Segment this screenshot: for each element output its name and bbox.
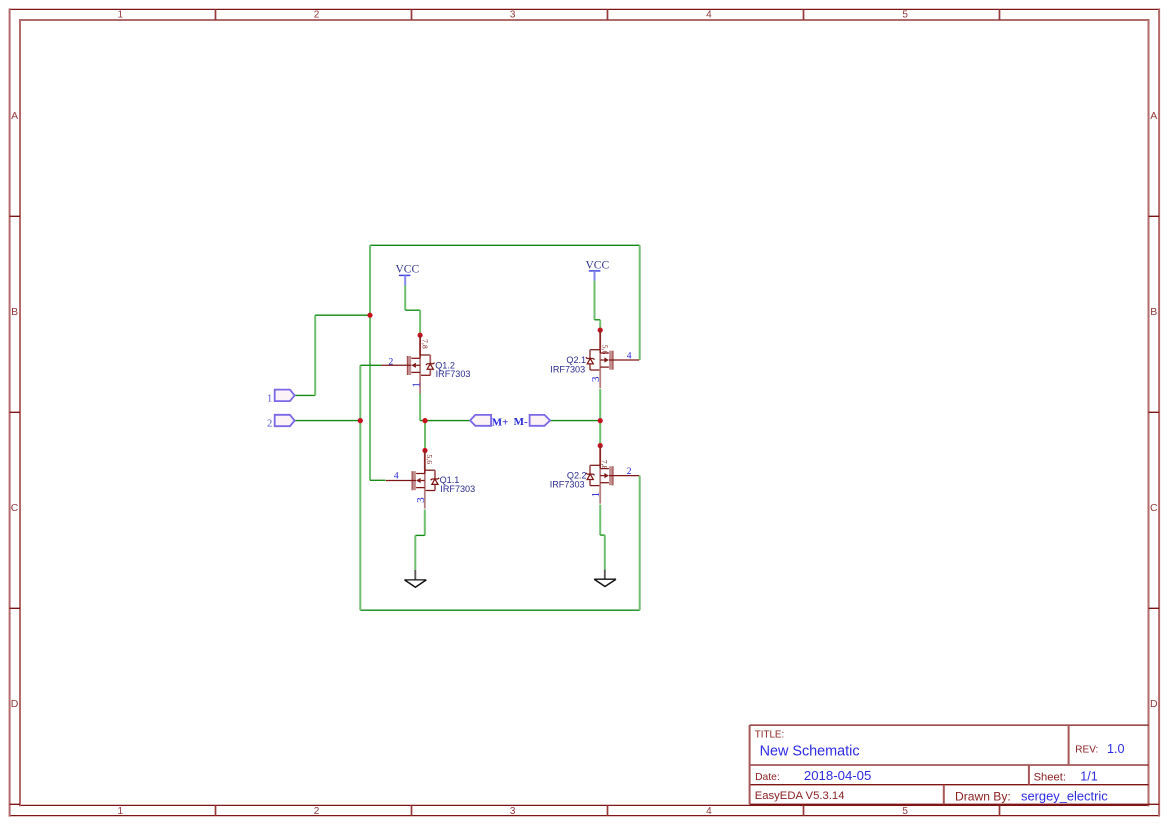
svg-text:1/1: 1/1: [1080, 769, 1098, 783]
svg-text:2: 2: [627, 467, 632, 477]
svg-text:4: 4: [627, 352, 632, 362]
svg-text:VCC: VCC: [585, 259, 609, 271]
svg-text:M-: M-: [514, 416, 528, 428]
svg-text:5: 5: [902, 10, 908, 21]
svg-text:1: 1: [118, 806, 124, 817]
junction at Q1.2 drain: [418, 333, 423, 338]
svg-text:C: C: [11, 502, 19, 514]
net port 1: [275, 390, 295, 402]
wire VCC1 to Q1.2 drain: [419, 310, 421, 335]
ground (right): [594, 570, 616, 587]
wire M+ junction to Q1.1 drain: [424, 421, 426, 451]
svg-text:EasyEDA V5.3.14: EasyEDA V5.3.14: [755, 790, 845, 802]
wire Q1.1 gate stub: [370, 479, 386, 481]
frame row letters left: [11, 110, 19, 710]
svg-text:5,6: 5,6: [425, 454, 434, 464]
svg-text:3: 3: [415, 497, 427, 503]
svg-text:4: 4: [706, 806, 712, 817]
svg-text:Drawn By:: Drawn By:: [955, 789, 1011, 803]
frame column numbers bottom: [118, 806, 909, 817]
wire from port 1: [295, 394, 316, 396]
wire Q2.2 source down: [599, 505, 601, 536]
svg-text:3: 3: [510, 806, 516, 817]
junction at Q2.1 drain: [598, 328, 603, 333]
wire Q1.2 gate stub: [360, 364, 381, 366]
svg-text:5: 5: [902, 806, 908, 817]
wire left vertical from top rail to Q1.1 gate: [369, 245, 371, 480]
frame row letters right: [1150, 110, 1158, 710]
wire VCC2 drop: [594, 280, 596, 320]
net port M-: [530, 415, 551, 426]
title block borders: [750, 725, 1149, 804]
svg-text:5,6: 5,6: [600, 345, 609, 355]
frame column ticks top: [216, 9, 1000, 20]
svg-text:3: 3: [590, 376, 602, 382]
junction at Q2.2 drain: [598, 443, 603, 448]
svg-text:Sheet:: Sheet:: [1034, 771, 1066, 783]
power symbol VCC (left): [395, 264, 419, 286]
svg-text:7,8: 7,8: [420, 339, 429, 349]
svg-text:2: 2: [389, 357, 394, 367]
svg-text:sergey_electric: sergey_electric: [1021, 789, 1108, 804]
svg-text:B: B: [1150, 306, 1157, 318]
wire port 1 to junction: [315, 314, 370, 316]
svg-text:3: 3: [510, 10, 516, 21]
svg-text:2018-04-05: 2018-04-05: [804, 768, 871, 783]
transistor Q1.2 (IRF7303 half, N-MOSFET): [381, 335, 434, 393]
svg-text:1.0: 1.0: [1107, 742, 1125, 756]
wire right vertical from top rail to Q2.1 gate: [639, 245, 641, 360]
wire M- horizontal: [550, 420, 600, 422]
svg-text:1: 1: [590, 492, 602, 498]
frame row ticks right: [1149, 216, 1160, 804]
svg-text:4: 4: [706, 10, 712, 21]
svg-text:1: 1: [118, 10, 124, 21]
wire to left ground: [414, 535, 416, 570]
svg-text:A: A: [1150, 110, 1157, 122]
svg-text:2: 2: [314, 806, 320, 817]
transistor Q2.1 (IRF7303 half, N-MOSFET, mirrored): [586, 330, 639, 388]
svg-text:A: A: [11, 110, 18, 122]
svg-text:1: 1: [410, 382, 422, 388]
net port 2: [275, 415, 295, 426]
svg-text:IRF7303: IRF7303: [550, 365, 585, 375]
wire from port 2 to junction: [295, 420, 361, 422]
svg-text:M+: M+: [492, 416, 509, 428]
frame row ticks left: [10, 216, 20, 804]
svg-text:New Schematic: New Schematic: [760, 744, 860, 760]
svg-text:Date:: Date:: [755, 772, 780, 783]
wire top rail VCC loop (net GATE1): [370, 244, 640, 246]
svg-text:TITLE:: TITLE:: [755, 730, 784, 741]
svg-text:4: 4: [394, 472, 399, 482]
svg-text:VCC: VCC: [395, 264, 419, 276]
svg-text:D: D: [11, 698, 19, 710]
transistor Q1.1 (IRF7303 half, N-MOSFET): [386, 451, 439, 509]
wire Q1.1 source down: [424, 510, 426, 536]
wire right vertical Q2.2 gate to bottom rail: [639, 476, 641, 611]
svg-text:1: 1: [267, 393, 272, 404]
wire port 1 riser: [314, 315, 316, 395]
wire Q1.1 ground jog: [415, 534, 425, 536]
svg-text:C: C: [1150, 502, 1158, 514]
power symbol VCC (right): [585, 259, 609, 280]
wire VCC2 to Q2.1 drain: [599, 320, 601, 330]
net port M+: [470, 415, 491, 426]
svg-text:2: 2: [267, 418, 272, 429]
junction on M+ wire: [422, 418, 427, 423]
svg-text:IRF7303: IRF7303: [550, 480, 585, 490]
svg-text:B: B: [11, 306, 18, 318]
wire Q1.2 source to M+ corner: [419, 393, 421, 420]
wire VCC1 jog: [405, 309, 420, 311]
wire bottom rail (net GATE2): [360, 609, 639, 611]
wire to right ground: [604, 535, 606, 570]
wire VCC2 jog: [595, 319, 601, 321]
svg-text:D: D: [1150, 698, 1158, 710]
ground (left): [405, 570, 427, 587]
wire M- junction to Q2.2 drain: [599, 421, 601, 446]
transistor Q2.2 (IRF7303 half, N-MOSFET, mirrored): [586, 446, 639, 504]
frame column ticks bottom: [216, 805, 1000, 815]
wire Q2.2 ground jog: [600, 534, 605, 536]
wire left vertical Q1.2 gate to bottom rail: [359, 365, 361, 610]
svg-text:IRF7303: IRF7303: [436, 369, 471, 379]
junction at port1 riser and left vertical: [367, 313, 372, 318]
junction at port2 wire and Q1.2 gate vertical: [358, 418, 363, 423]
svg-text:IRF7303: IRF7303: [440, 484, 475, 494]
frame column numbers top: [118, 10, 909, 21]
junction at Q1.1 drain: [422, 448, 427, 453]
svg-text:REV:: REV:: [1075, 744, 1098, 755]
wire VCC1 drop: [404, 285, 406, 310]
svg-text:7,8: 7,8: [600, 460, 609, 470]
junction on M- wire: [598, 418, 603, 423]
wire Q2.1 source to M- junction: [599, 389, 601, 421]
wire M+ horizontal: [420, 420, 470, 422]
svg-text:2: 2: [314, 10, 320, 21]
